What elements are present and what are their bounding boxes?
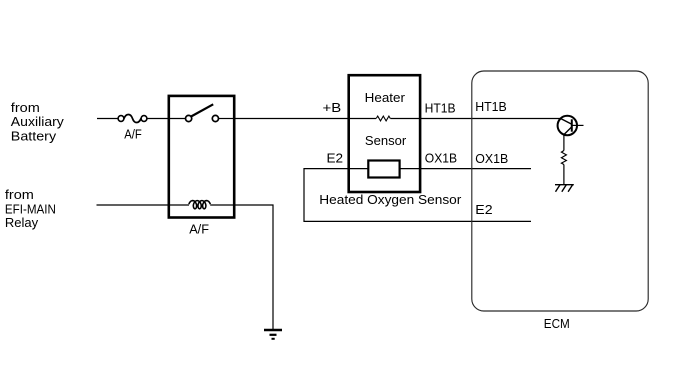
- wire: transistor emitter to resistor: [563, 135, 565, 151]
- svg-text:HT1B: HT1B: [425, 101, 456, 116]
- wire: relay box left to switch contact: [169, 118, 185, 120]
- wire: coil to ground drop: [210, 205, 273, 330]
- wire: EFI-MAIN relay feed to coil: [97, 204, 190, 206]
- fuse A/F: [118, 114, 147, 122]
- wire: sensor element to OX1B pin: [400, 168, 421, 170]
- svg-text:from: from: [11, 100, 40, 115]
- relay A/F box: [169, 96, 234, 218]
- svg-text:HT1B: HT1B: [475, 99, 507, 114]
- ground (earth) at relay drop: [264, 330, 282, 339]
- resistor in ECM: [561, 151, 566, 165]
- wire: switch contact to relay box right: [219, 118, 235, 120]
- label: from EFI-MAIN Relay: [5, 187, 56, 230]
- wire: fuse to relay: [147, 118, 168, 120]
- svg-text:Heated Oxygen Sensor: Heated Oxygen Sensor: [319, 192, 462, 207]
- svg-text:OX1B: OX1B: [475, 151, 508, 166]
- svg-text:A/F: A/F: [189, 221, 209, 236]
- svg-text:E2: E2: [475, 202, 492, 217]
- wire: relay switch to sensor +B: [234, 118, 349, 120]
- ECM box: [472, 71, 648, 311]
- svg-text:Battery: Battery: [11, 129, 57, 144]
- transistor Q (ECM driver): [558, 116, 584, 135]
- chassis ground (ECM): [555, 185, 574, 192]
- svg-text:OX1B: OX1B: [425, 151, 457, 166]
- wire: +B pin to heater resistor: [349, 118, 376, 120]
- relay A/F coil: [189, 201, 210, 209]
- svg-text:Heater: Heater: [365, 90, 406, 105]
- sensor element: [368, 161, 399, 178]
- heated oxygen sensor box: [349, 75, 420, 192]
- wire: resistor to chassis ground: [563, 165, 565, 185]
- wire: E2 sensor to ECM bus: [304, 169, 531, 222]
- wire: heater resistor to HT1B pin: [390, 118, 420, 120]
- wire: E2 pin to sensor element: [349, 168, 369, 170]
- relay A/F switch: [186, 104, 219, 121]
- svg-text:+B: +B: [323, 100, 342, 115]
- label: from Auxiliary Battery: [11, 100, 65, 144]
- svg-text:ECM: ECM: [544, 316, 570, 331]
- wire: battery feed to fuse: [97, 118, 118, 120]
- svg-text:from: from: [5, 187, 34, 202]
- wire: HT1B sensor to ECM transistor: [420, 118, 560, 120]
- svg-text:Sensor: Sensor: [365, 133, 407, 148]
- svg-text:Auxiliary: Auxiliary: [11, 114, 65, 129]
- svg-text:A/F: A/F: [124, 126, 142, 141]
- svg-text:E2: E2: [327, 151, 344, 166]
- heater resistor: [376, 116, 390, 121]
- wire: OX1B sensor to ECM stub: [420, 168, 531, 170]
- svg-text:Relay: Relay: [5, 215, 39, 230]
